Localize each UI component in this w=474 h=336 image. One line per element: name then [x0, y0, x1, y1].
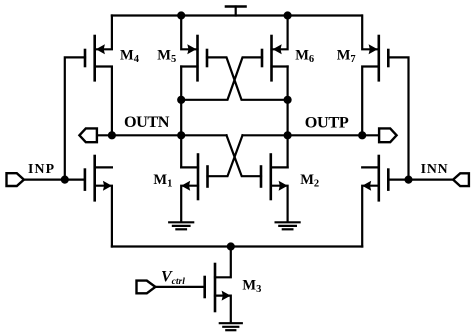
svg-text:M3: M3 — [242, 278, 261, 296]
transistor M7 (PMOS) — [362, 16, 388, 136]
VDD top rail wire — [112, 14, 362, 16]
wire: INP port to gate — [24, 179, 65, 181]
node: OUTP / M7 drain junction — [359, 132, 365, 138]
wire: M5 drain column down to OUTN — [180, 67, 182, 168]
input port INN — [453, 173, 469, 186]
wire: INN port to gate — [409, 179, 454, 181]
wire: OUTN net — [97, 134, 227, 136]
node: top rail / M6 source junction — [285, 13, 291, 19]
transistor M3 (NMOS tail current source) — [205, 247, 231, 323]
input port INP — [7, 173, 24, 186]
transistor M6 (PMOS, cross-coupled) — [262, 16, 288, 81]
wire: Vctrl port to M3 gate — [155, 286, 204, 288]
node: INN junction — [406, 177, 412, 183]
svg-text:INP: INP — [28, 161, 55, 176]
transistor M4 (PMOS) — [85, 16, 112, 136]
node: INP junction — [62, 177, 68, 183]
transistor: input NMOS (INP side) — [65, 156, 112, 247]
svg-text:M5: M5 — [157, 48, 176, 66]
transistor M1 (NMOS, cross-coupled) — [181, 155, 207, 222]
ground (M1 source) — [169, 222, 193, 229]
node: M6 drain / M5 gate junction — [285, 97, 291, 103]
svg-text:M1: M1 — [153, 172, 172, 190]
node: OUTN / M4 drain junction — [109, 132, 115, 138]
wire: common source bottom rail — [112, 245, 362, 247]
node: top rail / M5 source junction — [178, 13, 184, 19]
output port OUTN arrow — [79, 128, 97, 142]
svg-text:M4: M4 — [120, 48, 140, 66]
svg-text:Vctrl: Vctrl — [161, 268, 185, 287]
svg-text:M2: M2 — [300, 172, 319, 190]
wire: M4 gate to INP node — [65, 57, 85, 179]
transistor M2 (NMOS, cross-coupled) — [261, 155, 288, 222]
node: bottom rail / M3 drain junction — [228, 244, 234, 250]
output port OUTP arrow — [379, 128, 397, 142]
node: OUTN / M1 drain junction — [178, 132, 184, 138]
svg-text:M6: M6 — [295, 48, 314, 66]
input port Vctrl — [137, 281, 156, 294]
node: OUTP / M2 drain junction — [285, 132, 291, 138]
svg-text:OUTP: OUTP — [305, 114, 349, 132]
svg-text:M7: M7 — [337, 48, 356, 66]
wire: M6 drain column down to OUTP — [287, 67, 289, 168]
wire: OUTP cross-couple to M1 gate — [208, 135, 243, 176]
transistor M5 (PMOS, cross-coupled) — [181, 16, 207, 81]
svg-text:INN: INN — [421, 161, 448, 176]
wire: M6 gate cross-couple to M5 drain — [181, 57, 262, 99]
VDD supply symbol — [226, 7, 246, 16]
wire: OUTN cross-couple to M2 gate — [227, 135, 262, 176]
wire: OUTP net — [243, 134, 380, 136]
wire: M5 gate cross-couple to M6 drain — [207, 57, 288, 99]
svg-text:OUTN: OUTN — [124, 113, 170, 131]
node: M5 drain / M6 gate junction — [178, 97, 184, 103]
ground (M3 source) — [220, 323, 242, 330]
ground (M2 source) — [276, 222, 300, 229]
transistor: input NMOS (INN side) — [362, 156, 408, 247]
wire: M7 gate to INN node — [388, 57, 408, 179]
